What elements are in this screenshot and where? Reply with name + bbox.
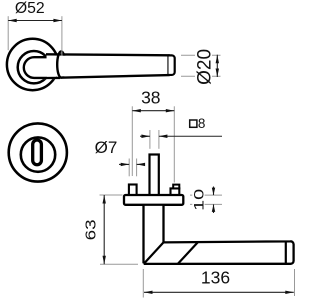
svg-text:136: 136: [201, 268, 230, 288]
svg-text:Ø7: Ø7: [95, 138, 118, 157]
svg-text:38: 38: [141, 88, 160, 108]
svg-text:10: 10: [190, 189, 206, 211]
svg-text:63: 63: [84, 219, 100, 240]
svg-text:Ø20: Ø20: [194, 49, 215, 85]
svg-text:Ø52: Ø52: [15, 0, 45, 17]
svg-text:8: 8: [198, 116, 206, 131]
